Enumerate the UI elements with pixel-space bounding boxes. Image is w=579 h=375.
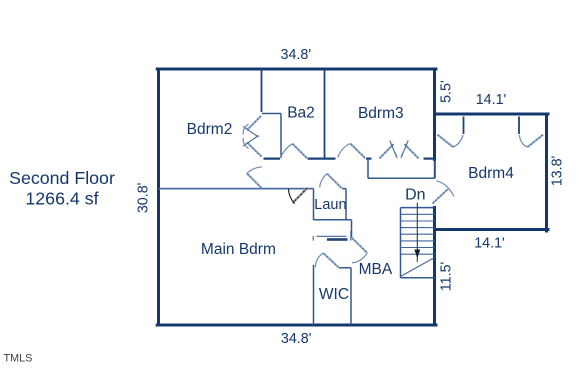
door Bdrm2 entry arc	[247, 167, 262, 174]
hall wall y158 segment D	[424, 158, 435, 160]
MBA left wall upper	[351, 220, 353, 238]
bifold Bdrm3 closet left inner leaf	[390, 141, 397, 158]
wing wall bottom (14.1')	[435, 228, 549, 231]
svg-text:Dn: Dn	[405, 187, 425, 204]
door Ba2 leaf	[292, 144, 306, 158]
svg-text:Bdrm3: Bdrm3	[358, 105, 404, 122]
stairwell bottom edge	[401, 277, 435, 279]
svg-text:MBA: MBA	[359, 261, 393, 278]
door Bdrm4 closet right arc	[519, 135, 527, 147]
stair tread 5	[401, 240, 435, 242]
hall wall y158 segment A	[264, 158, 281, 160]
door WIC arc	[315, 253, 323, 267]
exterior wall right lower (11.5' side)	[433, 208, 436, 326]
bifold Bdrm3 closet right hatched leaf	[405, 144, 419, 158]
closet nook top wall	[262, 113, 281, 115]
svg-text:Bdrm2: Bdrm2	[187, 121, 233, 138]
WIC left wall	[313, 265, 315, 325]
interior wall Ba2/Bdrm3 divider	[324, 69, 326, 159]
right wall closet section	[434, 160, 436, 179]
vanity left bracket	[312, 236, 314, 241]
door Laun leaf	[327, 174, 342, 188]
door MBA arc	[352, 253, 367, 263]
bifold Bdrm3 closet left hatched leaf	[380, 144, 394, 158]
Bdrm4 closet jamb right	[518, 117, 520, 135]
svg-text:TMLS: TMLS	[4, 352, 33, 364]
exterior wall bottom	[157, 324, 436, 327]
svg-text:13.8': 13.8'	[550, 155, 566, 186]
vanity sink bar	[327, 238, 348, 241]
bifold Bdrm3 closet center arcs	[394, 150, 397, 158]
svg-text:11.5': 11.5'	[438, 261, 454, 291]
stairwell top edge	[401, 207, 435, 209]
door Bdrm4 closet right leaf	[528, 135, 544, 147]
wing wall right (13.8')	[545, 114, 548, 231]
door MBA leaf	[352, 238, 367, 253]
stair tread 7	[401, 253, 435, 255]
stair direction arrow shaft	[416, 203, 418, 263]
bifold Bdrm2 closet top inner leaf	[243, 127, 259, 138]
door Bdrm4 hall leaf	[433, 189, 449, 204]
wing wall top (14.1')	[435, 113, 549, 116]
svg-text:Bdrm4: Bdrm4	[468, 165, 514, 182]
Laun left wall	[313, 189, 315, 220]
door Bdrm3 arc	[338, 144, 351, 158]
door Bdrm4 hall arc	[437, 181, 455, 197]
stair tread 2	[401, 220, 435, 222]
closet nook right wall	[280, 114, 282, 159]
stair tread 3	[401, 227, 435, 229]
bifold Bdrm3 closet right inner leaf	[401, 141, 408, 158]
exterior wall right upper (5.5' notch)	[433, 69, 436, 160]
WIC right wall / MBA divider	[350, 268, 352, 325]
hall wall y158 segment C	[366, 158, 372, 160]
exterior wall left	[157, 69, 160, 325]
bifold Bdrm2 closet bottom inner leaf	[243, 136, 259, 147]
svg-text:Ba2: Ba2	[287, 105, 315, 122]
vanity counter line	[317, 235, 347, 237]
door Bdrm2 entry leaf	[247, 173, 262, 188]
svg-text:5.5': 5.5'	[438, 80, 454, 103]
svg-text:Second Floor: Second Floor	[9, 168, 115, 188]
Bdrm3 closet bottom wall	[368, 177, 435, 179]
svg-text:30.8': 30.8'	[136, 182, 152, 213]
bifold Bdrm2 closet bottom hatched leaf	[247, 143, 262, 157]
Bdrm4 closet jamb left	[463, 117, 465, 135]
svg-text:1266.4 sf: 1266.4 sf	[25, 189, 98, 209]
door WIC leaf	[323, 253, 338, 267]
vanity right bracket	[350, 231, 352, 241]
stair tread 4	[401, 233, 435, 235]
exterior wall top	[157, 68, 436, 71]
Laun door jamb right	[342, 188, 346, 190]
hall wall y158 segment B	[308, 158, 336, 160]
svg-text:34.8': 34.8'	[281, 47, 312, 63]
svg-text:34.8': 34.8'	[281, 331, 312, 347]
stair break diagonal	[401, 258, 435, 277]
interior wall Bdrm2/Main Bdrm	[159, 188, 314, 190]
stair tread 6	[401, 247, 435, 249]
Laun right wall	[345, 189, 347, 220]
door Laun arc	[320, 174, 327, 188]
door Bdrm4 closet left arc	[453, 135, 463, 147]
svg-text:Main Bdrm: Main Bdrm	[201, 241, 276, 258]
svg-text:14.1': 14.1'	[476, 92, 507, 108]
WIC top wall	[339, 267, 351, 269]
stair tread 1	[401, 213, 435, 215]
bifold Bdrm2 closet arcs	[243, 124, 248, 135]
Laun bottom wall	[314, 219, 352, 221]
door Bdrm3 leaf	[350, 144, 365, 159]
door Ba2 arc	[280, 144, 292, 158]
svg-text:WIC: WIC	[319, 286, 349, 303]
Bdrm3 closet left wall	[367, 159, 369, 179]
bifold Bdrm2 closet top hatched leaf	[247, 116, 261, 130]
stair arrowhead	[414, 250, 420, 259]
door Main Bdrm entry arc (dark)	[288, 189, 294, 204]
interior wall Bdrm2/Ba2 upper	[261, 69, 263, 112]
door Main Bdrm entry leaf (dark)	[293, 188, 308, 203]
svg-text:14.1': 14.1'	[474, 235, 505, 251]
door Bdrm4 closet left leaf	[438, 135, 454, 147]
stairwell left wall	[400, 208, 402, 278]
svg-text:Laun: Laun	[314, 197, 346, 213]
